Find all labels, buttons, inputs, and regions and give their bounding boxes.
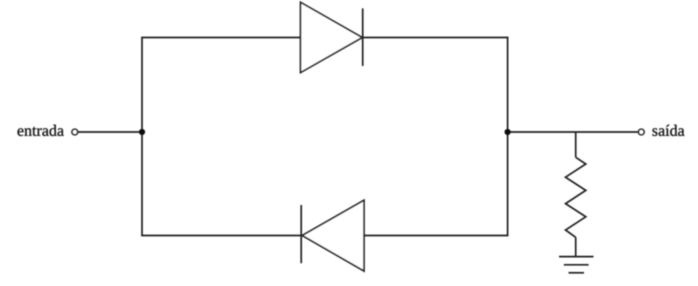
wire right branch vertical [507,37,509,237]
resistor R1 (load) zigzag [566,157,586,237]
diode D2 (bottom, conducting right-to-left) cathode bar [300,205,302,263]
wire bottom branch left segment [141,235,301,237]
diode D1 cathode bar [362,8,364,66]
wire bottom branch right segment [364,235,508,237]
wire top branch right segment [363,37,509,39]
wire top branch left segment [141,37,300,39]
label saida [653,125,685,136]
wire resistor bottom lead [575,237,577,256]
diode D1 (top, conducting left-to-right) anode triangle [301,2,363,72]
node B junction dot (output side) [505,129,511,135]
label entrada [18,125,64,136]
terminal (open circle) saida [639,129,645,135]
wire resistor top lead [575,132,577,157]
wire input: entrada terminal to node A [78,131,142,133]
terminal (open circle) entrada [72,129,78,135]
ground symbol [559,257,594,273]
wire left branch vertical [141,38,143,236]
diode D2 anode triangle [302,200,364,271]
wire output: node B to saida terminal [508,131,638,133]
node A junction dot (input side) [139,129,145,135]
